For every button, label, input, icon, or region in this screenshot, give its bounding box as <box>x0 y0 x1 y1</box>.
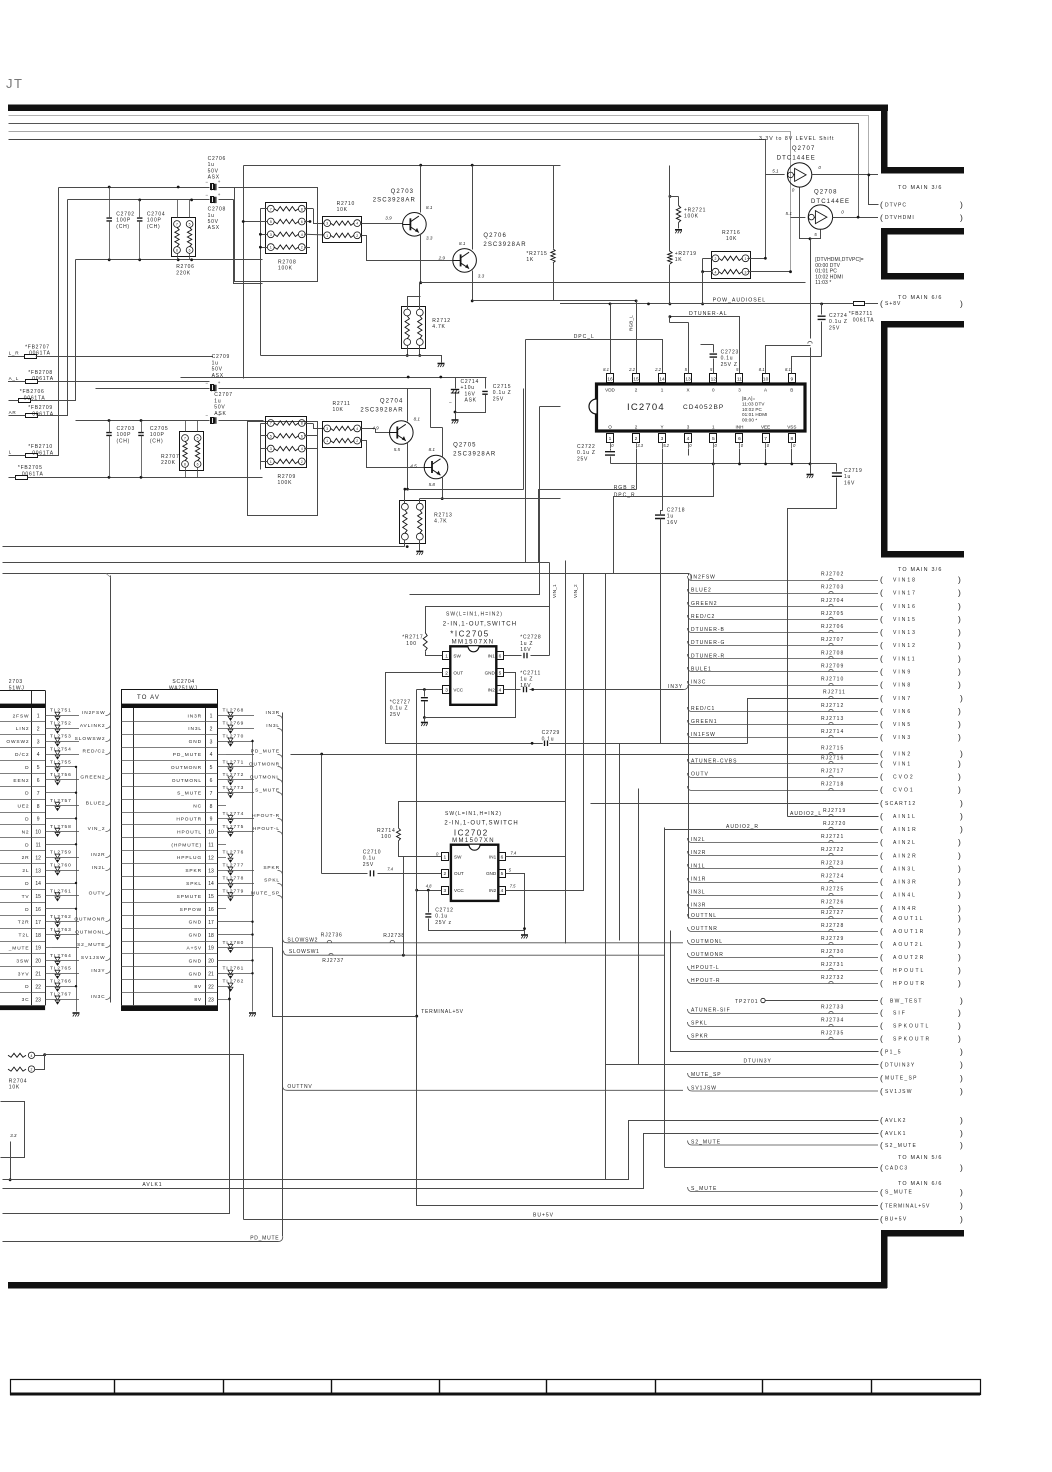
wire ATUNER-CVBS to main <box>688 759 879 764</box>
wire GND row <box>217 741 252 743</box>
SC2703 gnd bus <box>76 767 78 1012</box>
svg-text:RJ2727: RJ2727 <box>821 910 844 916</box>
SC2704 pin 1 <box>121 721 217 723</box>
svg-text:MUTE_SP: MUTE_SP <box>885 1076 918 1082</box>
IC2702 pin 1 SW <box>442 853 449 861</box>
svg-text:TL2779: TL2779 <box>223 888 245 894</box>
svg-text:AIN1L: AIN1L <box>893 814 917 820</box>
svg-text:8.1: 8.1 <box>459 241 466 246</box>
wire A+5V to TERMINAL+5V <box>273 948 417 1017</box>
svg-text:TL2769: TL2769 <box>223 721 245 727</box>
svg-text:RJ2709: RJ2709 <box>821 663 844 669</box>
svg-text:S_MUTE: S_MUTE <box>177 791 202 797</box>
svg-text:L: L <box>9 450 12 455</box>
SC2703 pin 13 <box>0 876 45 878</box>
svg-text:2.2: 2.2 <box>628 367 635 372</box>
wire Q2705 emitter rail <box>420 498 561 500</box>
wire GREEN2 <box>52 779 79 781</box>
svg-text:(HPMUTE): (HPMUTE) <box>171 842 202 848</box>
svg-text:2: 2 <box>443 871 446 877</box>
SC2704 pin 10 <box>121 837 217 839</box>
svg-text:): ) <box>958 772 961 782</box>
riser net rows <box>688 579 690 919</box>
svg-text:25V z: 25V z <box>435 920 452 926</box>
pins 2 stub <box>636 449 638 490</box>
right border notch 3 <box>881 321 964 328</box>
svg-text:(: ( <box>880 772 883 782</box>
Q2706 emitter wire <box>472 271 474 301</box>
wire OUTMONL <box>52 934 79 936</box>
wire ATUNER-SIF to main <box>688 1009 879 1014</box>
svg-text:RJ2708: RJ2708 <box>821 650 844 656</box>
wire row3 upper <box>76 259 263 261</box>
wire GND row <box>217 960 252 962</box>
svg-text:2: 2 <box>31 1068 33 1072</box>
svg-text:GND: GND <box>189 933 202 939</box>
svg-text:AIN2R: AIN2R <box>893 853 918 859</box>
svg-text:(: ( <box>880 1140 884 1150</box>
svg-text:AOUT2R: AOUT2R <box>893 955 925 961</box>
svg-text:TL2757: TL2757 <box>50 798 72 804</box>
wire VIN_2 riser <box>3 574 689 576</box>
wire PD_MUTE row / VIN2 net <box>291 754 879 756</box>
wire SPKR <box>226 870 254 872</box>
svg-text:VIN3: VIN3 <box>893 735 912 741</box>
svg-text:IN3C: IN3C <box>691 680 706 686</box>
wire R2711 pin2 to Q2705 base <box>362 441 425 468</box>
svg-text:14: 14 <box>35 881 41 887</box>
svg-text:5.2: 5.2 <box>663 443 669 448</box>
svg-text:1: 1 <box>270 246 272 250</box>
SC2704 pin 19 <box>121 953 217 955</box>
transistor Q2705 <box>424 455 448 479</box>
IC2702 pin 4 IN2 <box>499 887 506 895</box>
svg-text:S2_MUTE: S2_MUTE <box>885 1143 917 1149</box>
pins 4 stub <box>688 449 690 456</box>
svg-text:C2729: C2729 <box>542 730 560 736</box>
wire 8V riser <box>229 987 231 1214</box>
SC2704 pin 23 <box>121 1005 217 1007</box>
capacitor C2703 <box>106 433 112 436</box>
svg-text:RJ2707: RJ2707 <box>821 637 844 643</box>
svg-text:21: 21 <box>208 972 214 978</box>
SC2704 pin 5 <box>121 773 217 775</box>
svg-text:C2704: C2704 <box>147 212 165 218</box>
IC2704 pin 3 <box>659 434 666 443</box>
svg-text:TO MAIN 5/6: TO MAIN 5/6 <box>898 1155 943 1161</box>
svg-text:D: D <box>25 881 29 887</box>
bus line 4 <box>9 140 766 259</box>
component box bottom-left <box>1 1102 25 1158</box>
svg-text:−: − <box>205 192 208 197</box>
svg-text:IN3C: IN3C <box>91 994 106 1000</box>
svg-text:(: ( <box>880 200 884 210</box>
svg-text:OUTMONR: OUTMONR <box>74 916 105 922</box>
svg-text:SPKOUTL: SPKOUTL <box>893 1024 930 1030</box>
svg-text:INH: INH <box>736 424 744 429</box>
SC2703 pin 8 <box>0 812 45 814</box>
svg-text:(: ( <box>880 1201 884 1211</box>
svg-text:0.1u Z: 0.1u Z <box>577 450 596 456</box>
wire 8V row <box>217 986 229 988</box>
wire Q2706 emitter to RGB_L <box>473 300 637 302</box>
SC2703 pin 17 <box>0 928 45 930</box>
svg-text:HPPLUG: HPPLUG <box>177 855 202 861</box>
svg-text:TL2764: TL2764 <box>50 953 72 959</box>
svg-text:(: ( <box>880 1187 884 1197</box>
svg-text:SW(L=IN1,H=IN2): SW(L=IN1,H=IN2) <box>445 811 502 817</box>
svg-text:16V: 16V <box>520 647 531 653</box>
Q2706 collector wire <box>472 166 474 250</box>
svg-text:2: 2 <box>445 670 448 676</box>
svg-text:RJ2737: RJ2737 <box>322 958 344 964</box>
svg-text:RJ2738: RJ2738 <box>383 933 405 939</box>
svg-text:BW_TEST: BW_TEST <box>890 999 923 1005</box>
wire S_MUTE <box>226 792 254 794</box>
svg-text:TL2766: TL2766 <box>50 979 72 985</box>
svg-text:11: 11 <box>208 843 213 849</box>
wire DTUNER-G to main <box>688 641 879 646</box>
svg-text:LIN2: LIN2 <box>16 726 30 732</box>
SC2703 pin 18 <box>0 941 45 943</box>
SC2704 pin 14 <box>121 889 217 891</box>
wire PD_MUTE <box>226 754 254 756</box>
svg-text:*FB2706: *FB2706 <box>20 389 45 395</box>
wire Q2704 emitter rail <box>408 489 524 491</box>
svg-text:OWSW2: OWSW2 <box>6 739 29 745</box>
IC2704 pin 12 <box>710 374 717 383</box>
svg-text:100K: 100K <box>278 266 293 272</box>
svg-text:PD_MUTE: PD_MUTE <box>173 752 202 758</box>
svg-text:O: O <box>608 424 612 429</box>
bus line 2 <box>9 124 859 218</box>
svg-text:): ) <box>960 1187 964 1197</box>
svg-text:8.1: 8.1 <box>603 367 609 372</box>
svg-text:(: ( <box>880 939 883 949</box>
svg-text:20: 20 <box>208 959 214 965</box>
svg-text:8: 8 <box>790 436 793 442</box>
SC2704 pin 21 <box>121 979 217 981</box>
svg-text:SLOWSW2: SLOWSW2 <box>75 736 106 742</box>
Q2708 output wire <box>833 217 878 219</box>
svg-text:(: ( <box>880 588 883 598</box>
svg-text:AIN4L: AIN4L <box>893 893 917 899</box>
svg-text:OUTTNR: OUTTNR <box>691 926 718 932</box>
vertical to IC2704 rail <box>810 239 812 339</box>
svg-text:100P: 100P <box>150 432 165 438</box>
wire MUTE_SP <box>688 1073 878 1078</box>
svg-text:AIN4R: AIN4R <box>893 906 918 912</box>
wire OUTV <box>52 895 79 897</box>
svg-text:RJ2704: RJ2704 <box>821 598 844 604</box>
svg-text:GND: GND <box>189 920 202 926</box>
svg-text:TO MAIN 6/6: TO MAIN 6/6 <box>898 295 943 301</box>
right border notch 2 <box>881 228 964 235</box>
wire MUTE_SP <box>226 895 254 897</box>
svg-text:2.2: 2.2 <box>654 367 661 372</box>
wire GND row <box>217 934 252 936</box>
wire S2_MUTE <box>688 1141 878 1146</box>
svg-text:−: − <box>205 413 208 418</box>
svg-text:22: 22 <box>35 984 41 990</box>
svg-text:8.1: 8.1 <box>785 367 791 372</box>
svg-text:IC2702: IC2702 <box>454 829 489 838</box>
svg-text:(: ( <box>880 601 883 611</box>
svg-text:RJ2710: RJ2710 <box>821 677 844 683</box>
SC2704 pin 12 <box>121 863 217 865</box>
node DTVPC <box>869 175 879 205</box>
wire FB2708 rail lower <box>234 200 263 284</box>
svg-text:(: ( <box>880 627 883 637</box>
svg-text:4: 4 <box>356 427 358 431</box>
svg-text:*FB2705: *FB2705 <box>18 465 43 471</box>
ground below SC2703 <box>73 1012 80 1014</box>
wire VIN7 from riser <box>748 699 879 744</box>
svg-text:3C: 3C <box>22 997 30 1003</box>
svg-text:TERMINAL+5V: TERMINAL+5V <box>885 1204 930 1210</box>
svg-text:RJ2731: RJ2731 <box>821 962 844 968</box>
svg-text:(: ( <box>880 837 883 847</box>
svg-text:): ) <box>958 1008 961 1018</box>
svg-text:17: 17 <box>35 920 41 926</box>
svg-text:10K: 10K <box>726 236 737 242</box>
svg-text:MM1507XN: MM1507XN <box>452 838 495 844</box>
svg-text:10: 10 <box>208 830 214 836</box>
svg-text:*FB2709: *FB2709 <box>28 405 53 411</box>
Q2704 collector wire <box>407 389 409 422</box>
wire VIN_2 <box>52 831 79 833</box>
svg-text:GND: GND <box>486 871 497 876</box>
svg-text:2FSW: 2FSW <box>13 713 30 719</box>
svg-text:POW_AUDIOSEL: POW_AUDIOSEL <box>713 298 767 304</box>
svg-text:SLOWSW1: SLOWSW1 <box>289 949 320 955</box>
svg-text:SPPOW: SPPOW <box>180 907 202 913</box>
svg-text:7: 7 <box>210 791 213 797</box>
IC2704 pin 5 <box>710 434 717 443</box>
svg-text:100: 100 <box>381 834 392 840</box>
IC2704 bottom bus <box>611 463 811 465</box>
capacitor C2705 <box>138 433 144 436</box>
svg-text:(: ( <box>880 798 884 808</box>
R2712 top wires <box>407 296 409 309</box>
wire CVO1 to main <box>688 786 879 791</box>
svg-text:): ) <box>958 653 961 663</box>
svg-text:R2704: R2704 <box>9 1078 27 1084</box>
svg-text:4: 4 <box>499 687 502 693</box>
svg-text:IN1: IN1 <box>489 855 497 860</box>
svg-text:2: 2 <box>356 234 358 238</box>
svg-text:L_R: L_R <box>9 351 20 356</box>
svg-text:HPOUT-L: HPOUT-L <box>691 965 720 971</box>
svg-text:6: 6 <box>301 220 303 224</box>
svg-text:R2706: R2706 <box>176 264 194 270</box>
svg-text:): ) <box>960 811 964 821</box>
svg-text:RGB_L: RGB_L <box>629 315 634 331</box>
wire PD_MUTE bottom <box>3 1241 279 1243</box>
svg-text:): ) <box>958 640 961 650</box>
svg-text:): ) <box>958 978 961 988</box>
svg-text:100P: 100P <box>147 218 162 224</box>
wire OUT left <box>386 673 748 744</box>
svg-text:10:02 PC: 10:02 PC <box>742 407 763 412</box>
svg-text:4: 4 <box>687 436 690 442</box>
wire IN1 right <box>504 655 522 657</box>
svg-text:TO MAIN 3/6: TO MAIN 3/6 <box>898 185 943 191</box>
R2704 wires <box>35 1055 45 1057</box>
svg-text:): ) <box>958 588 961 598</box>
svg-text:TL2760: TL2760 <box>50 863 72 869</box>
svg-text:3: 3 <box>270 447 272 451</box>
svg-text:(: ( <box>880 1047 884 1057</box>
wire SLOWSW2 RJ2736 RJ2738 <box>283 938 684 943</box>
svg-text:SW: SW <box>454 855 462 860</box>
resistor network R2707 <box>180 432 204 471</box>
svg-text:DPC_L: DPC_L <box>574 334 595 340</box>
svg-text:TL2755: TL2755 <box>50 759 72 765</box>
svg-text:1u Z: 1u Z <box>520 677 533 683</box>
svg-text:NC: NC <box>193 804 202 810</box>
svg-text:7: 7 <box>764 436 767 442</box>
wire pin10 up <box>766 346 811 368</box>
title block strip <box>11 1380 981 1395</box>
svg-text:): ) <box>960 996 964 1006</box>
capacitor C2709 <box>212 385 216 391</box>
svg-text:(: ( <box>880 575 883 585</box>
capacitor C2707 <box>212 417 216 423</box>
svg-text:0061TA: 0061TA <box>32 411 54 417</box>
svg-text:(: ( <box>880 667 883 677</box>
svg-text:1: 1 <box>326 234 328 238</box>
svg-text:HPOUTL: HPOUTL <box>177 829 202 835</box>
IC2704 pin 15 <box>633 374 640 383</box>
svg-text:0.1u Z: 0.1u Z <box>829 319 848 325</box>
svg-text:VCC: VCC <box>454 888 464 893</box>
wire AVLK1 rail 2 <box>3 1134 879 1189</box>
svg-text:6: 6 <box>210 778 213 784</box>
svg-text:8V: 8V <box>194 984 202 990</box>
svg-text:(: ( <box>880 706 883 716</box>
svg-text:C2703: C2703 <box>117 426 135 432</box>
svg-text:1u: 1u <box>208 162 215 168</box>
svg-text:VCC: VCC <box>453 687 463 692</box>
svg-text:7.4: 7.4 <box>510 851 516 856</box>
svg-text:7.4: 7.4 <box>387 867 393 872</box>
svg-text:IN3L: IN3L <box>188 726 202 732</box>
svg-text:SPKOUTR: SPKOUTR <box>893 1037 931 1043</box>
svg-text:VIN2: VIN2 <box>893 752 912 758</box>
svg-text:R2712: R2712 <box>432 318 450 324</box>
svg-text:*R2717: *R2717 <box>402 635 423 641</box>
IC2704 pin 14 <box>659 374 666 383</box>
wire IN2R to main <box>688 851 879 856</box>
svg-text:C2723: C2723 <box>721 350 739 356</box>
svg-text:TL2765: TL2765 <box>50 966 72 972</box>
svg-text:R2713: R2713 <box>434 513 452 519</box>
svg-text:(: ( <box>880 811 884 821</box>
svg-text:+: + <box>218 380 221 385</box>
svg-text:): ) <box>958 965 961 975</box>
wire OUTMONR to main <box>688 953 879 958</box>
svg-text:AIN1R: AIN1R <box>893 827 918 833</box>
node TERMINAL+5V <box>430 1205 878 1207</box>
svg-text:TL2759: TL2759 <box>50 850 72 856</box>
svg-text:16: 16 <box>607 377 613 383</box>
svg-text:11: 11 <box>36 843 41 849</box>
svg-text:5: 5 <box>37 765 40 771</box>
svg-text:T2L: T2L <box>19 933 30 939</box>
svg-text:7.5: 7.5 <box>510 884 516 889</box>
wire row2 lower <box>76 420 210 422</box>
svg-text:TV: TV <box>22 894 30 900</box>
svg-text:11:03 DTV: 11:03 DTV <box>742 401 765 406</box>
svg-text:21: 21 <box>35 972 41 978</box>
svg-text:TL2771: TL2771 <box>223 759 245 765</box>
svg-text:25V: 25V <box>363 862 374 868</box>
svg-text:3: 3 <box>661 436 664 442</box>
svg-text:22: 22 <box>208 984 214 990</box>
svg-text:OUTMONR: OUTMONR <box>249 762 280 768</box>
wire pin16 up <box>610 304 612 368</box>
svg-text:2: 2 <box>37 726 40 732</box>
svg-text:(: ( <box>880 1073 884 1083</box>
svg-text:4: 4 <box>31 1054 33 1058</box>
wire OUTMONR <box>52 921 79 923</box>
svg-text:RED/C2: RED/C2 <box>691 614 715 620</box>
SC2704 pin 8 <box>121 812 217 814</box>
svg-text:11:03 *: 11:03 * <box>815 280 831 286</box>
wire GND row <box>45 883 76 885</box>
wire DTUNER-B to main <box>688 628 879 633</box>
svg-text:): ) <box>958 601 961 611</box>
SC2703 pin 1 <box>0 721 45 723</box>
svg-text:7: 7 <box>176 223 178 227</box>
svg-text:): ) <box>960 212 964 222</box>
svg-text:2703: 2703 <box>9 679 23 685</box>
wire rail 3 <box>3 1018 230 1214</box>
svg-text:3: 3 <box>326 222 328 226</box>
svg-text:+R2719: +R2719 <box>675 251 697 257</box>
svg-text:VIN17: VIN17 <box>893 591 917 597</box>
IC2704 pin 13 <box>685 374 692 383</box>
SC2704 pin 20 <box>121 966 217 968</box>
wire RED/C2 <box>52 754 79 756</box>
wire GND row <box>45 986 76 988</box>
svg-text:CD4052BP: CD4052BP <box>683 404 724 411</box>
svg-text:TL2752: TL2752 <box>50 721 72 727</box>
IC2704 pin 2 <box>633 434 640 443</box>
svg-text:RJ2720: RJ2720 <box>823 821 846 827</box>
svg-text:GREEN2: GREEN2 <box>80 775 105 781</box>
svg-text:DTUNER-G: DTUNER-G <box>691 640 725 646</box>
svg-text:8: 8 <box>301 422 303 426</box>
svg-text:Q2708: Q2708 <box>814 190 838 196</box>
wire IN2R <box>52 857 79 859</box>
svg-text:CADC3: CADC3 <box>885 1166 908 1172</box>
svg-text:SPKL: SPKL <box>691 1021 708 1027</box>
Q2708 input wire <box>791 217 806 219</box>
wire S2_MUTE <box>52 947 79 949</box>
wire IN1L to main <box>688 864 879 869</box>
svg-text:VIN5: VIN5 <box>893 722 912 728</box>
wire HPOUT-L <box>226 831 254 833</box>
svg-text:TL2754: TL2754 <box>50 746 72 752</box>
SC2704 pin 16 <box>121 915 217 917</box>
IC2704 pin 16 <box>607 374 614 383</box>
svg-text:): ) <box>958 627 961 637</box>
svg-text:16V: 16V <box>667 520 678 526</box>
svg-text:2SC3928AR: 2SC3928AR <box>373 198 416 204</box>
svg-text:BLUE2: BLUE2 <box>86 800 106 806</box>
